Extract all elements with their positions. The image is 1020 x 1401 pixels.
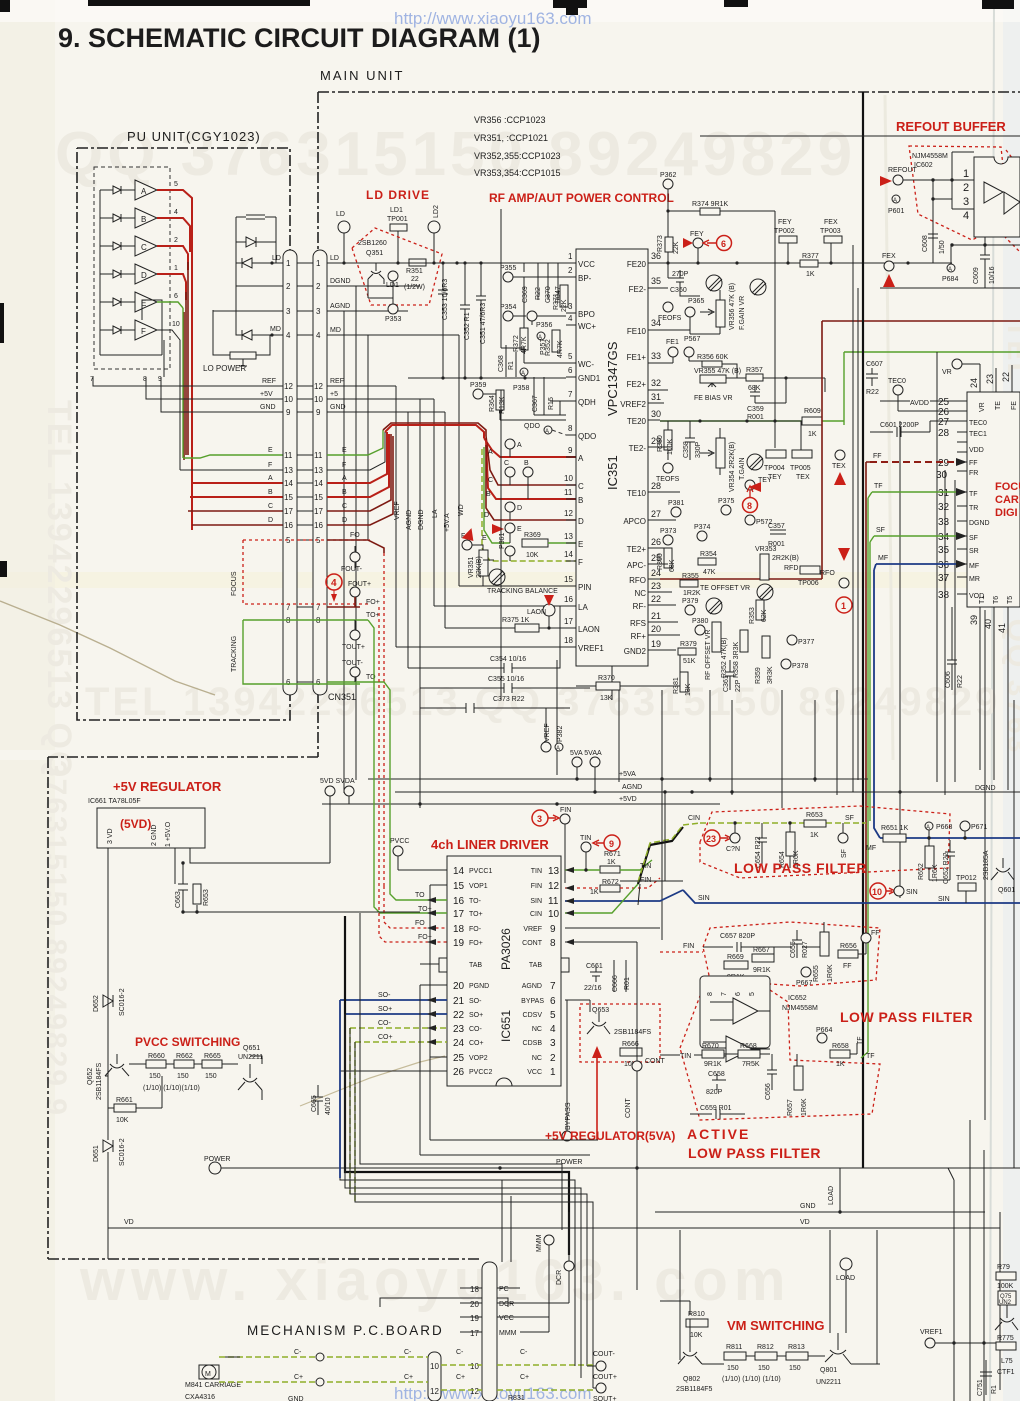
- svg-text:+5: +5: [330, 391, 338, 398]
- svg-text:FE1: FE1: [666, 339, 679, 346]
- C663 R653 pair: [178, 863, 420, 912]
- P664 node: [817, 1033, 827, 1043]
- svg-text:TP005: TP005: [790, 465, 811, 472]
- svg-text:7R5K: 7R5K: [742, 1061, 760, 1068]
- svg-text:D652: D652: [93, 995, 100, 1012]
- svg-text:4R7K: 4R7K: [557, 340, 564, 358]
- M841 carriage motor: [202, 1365, 216, 1379]
- svg-text:TO+: TO+: [366, 612, 380, 619]
- svg-text:R22: R22: [866, 389, 879, 396]
- C368 R1 labels: [408, 345, 566, 378]
- svg-text:LD: LD: [330, 255, 339, 262]
- svg-text:+5V: +5V: [260, 391, 273, 398]
- VD line: [108, 1227, 1000, 1229]
- R380 100K C358 330P vertical pair: [664, 430, 672, 450]
- VREF1 row 18: [396, 646, 576, 648]
- svg-text:FEOFS: FEOFS: [658, 315, 682, 322]
- C352 vertical cap: [460, 263, 470, 378]
- svg-text:(1/10) (1/10)(1/10): (1/10) (1/10)(1/10): [143, 1085, 200, 1092]
- MD wire: [236, 286, 283, 335]
- svg-text:CONT: CONT: [522, 940, 543, 947]
- svg-text:VR354 2R2K(B): VR354 2R2K(B): [729, 442, 736, 492]
- green E vertical: [182, 308, 184, 458]
- svg-text:9R1K: 9R1K: [753, 967, 771, 974]
- svg-text:P664: P664: [816, 1027, 832, 1034]
- svg-text:P361: P361: [499, 533, 506, 549]
- svg-text:12: 12: [548, 881, 560, 892]
- svg-text:WC-: WC-: [578, 360, 594, 369]
- svg-text:2SB1260: 2SB1260: [358, 240, 387, 247]
- R351 resistor: [409, 259, 426, 266]
- long verticals to bus area: [557, 352, 1014, 1120]
- C608 cap vertical: [928, 226, 938, 263]
- svg-text:FOUT-: FOUT-: [341, 566, 363, 573]
- svg-text:2SB1184FS: 2SB1184FS: [96, 1062, 103, 1100]
- LD row right: [327, 262, 910, 264]
- svg-text:P355: P355: [500, 265, 516, 272]
- regulator wires: [108, 804, 330, 995]
- C369 R22 C370 R047 vertical caps: [524, 263, 558, 300]
- svg-text:FIN: FIN: [531, 883, 542, 890]
- svg-text:B: B: [342, 489, 347, 496]
- PIN row 15: [459, 585, 576, 587]
- misc wires right cluster: [660, 447, 680, 672]
- svg-text:FOCU: FOCU: [995, 481, 1020, 493]
- svg-text:R377: R377: [802, 253, 819, 260]
- svg-text:1R6K: 1R6K: [827, 964, 834, 982]
- svg-text:D: D: [141, 271, 147, 280]
- svg-text:PVCC1: PVCC1: [469, 868, 492, 875]
- P355 node: [503, 272, 513, 282]
- svg-text:3R3K: 3R3K: [767, 666, 774, 684]
- svg-text:26: 26: [651, 537, 661, 547]
- svg-text:12: 12: [564, 509, 573, 518]
- svg-text:C666: C666: [612, 975, 619, 992]
- FO- red dashed left: [384, 886, 447, 928]
- R352 4R7K vertical: [552, 330, 560, 352]
- svg-text:10K: 10K: [116, 1117, 129, 1124]
- MMM node: [544, 1235, 554, 1245]
- PU UNIT box: [77, 148, 290, 720]
- svg-text:+5V REGULATOR: +5V REGULATOR: [113, 779, 222, 794]
- svg-text:MR: MR: [969, 576, 980, 583]
- svg-text:330P: 330P: [695, 441, 702, 458]
- C606 R22 vertical: [947, 607, 957, 690]
- svg-text:MAIN UNIT: MAIN UNIT: [320, 68, 404, 83]
- svg-text:C601 2200P: C601 2200P: [880, 422, 919, 429]
- svg-text:R353: R353: [749, 607, 756, 624]
- FE1 P567 nodes: [668, 347, 678, 357]
- svg-text:DGND: DGND: [975, 785, 996, 792]
- wire row y378: [660, 357, 825, 392]
- FIN node + circled 3: [560, 814, 570, 824]
- svg-text:VREF: VREF: [544, 723, 551, 742]
- svg-text:41: 41: [997, 623, 1007, 633]
- R374 row wire: [668, 211, 775, 448]
- C655 R027 vertical: [792, 930, 802, 958]
- svg-text:APCO: APCO: [623, 517, 646, 526]
- TO+ row pin8: [327, 619, 368, 621]
- svg-text:VR351, :CCP1021: VR351, :CCP1021: [474, 133, 548, 143]
- svg-text:C: C: [268, 503, 273, 510]
- svg-text:TEX: TEX: [796, 474, 810, 481]
- svg-text:R001: R001: [747, 414, 764, 421]
- svg-text:R658: R658: [832, 1043, 849, 1050]
- svg-text:10K: 10K: [526, 552, 539, 559]
- svg-text:DCR: DCR: [556, 1270, 563, 1285]
- C354 cap row: [408, 606, 560, 668]
- svg-text:VR356 :CCP1023: VR356 :CCP1023: [474, 115, 546, 125]
- svg-text:150: 150: [177, 1073, 189, 1080]
- circled 10 + SIN node: [870, 883, 886, 899]
- svg-text:6: 6: [568, 366, 573, 375]
- svg-text:RF OFFSET VR: RF OFFSET VR: [705, 630, 712, 680]
- MAIN UNIT border left upper: [317, 92, 319, 757]
- P380 node: [695, 625, 705, 635]
- svg-text:9: 9: [316, 408, 321, 417]
- svg-text:18: 18: [453, 924, 465, 935]
- FF dashed wire: [870, 461, 957, 463]
- bus junction dots: [575, 777, 578, 780]
- svg-text:T1: T1: [979, 596, 986, 604]
- photodiode F: [113, 326, 121, 334]
- svg-text:CXA4316: CXA4316: [185, 1394, 215, 1401]
- svg-text:TE: TE: [995, 401, 1002, 410]
- svg-text:22: 22: [411, 276, 419, 283]
- IC652 op-amp box: [700, 976, 770, 1048]
- svg-text:TIN: TIN: [680, 1053, 691, 1060]
- svg-text:R660: R660: [148, 1053, 165, 1060]
- svg-text:150: 150: [789, 1365, 801, 1372]
- svg-text:SF: SF: [841, 849, 848, 858]
- svg-text:FIN: FIN: [560, 807, 571, 814]
- svg-text:TOUT+: TOUT+: [342, 644, 365, 651]
- svg-text:F: F: [342, 462, 346, 469]
- svg-text:FO+: FO+: [469, 940, 483, 947]
- servo IC body: [967, 392, 1020, 607]
- R360 68K vertical: [664, 548, 672, 568]
- svg-text:R027: R027: [802, 941, 809, 958]
- svg-text:C355 10/16: C355 10/16: [488, 676, 524, 683]
- node circle E + red arrow: [505, 523, 515, 533]
- svg-text:RFS: RFS: [630, 619, 646, 628]
- P375 P374 P381 P373 nodes: [721, 505, 731, 515]
- svg-text:R670: R670: [702, 1043, 719, 1050]
- FOUT+ node: [350, 587, 360, 597]
- svg-text:R359: R359: [755, 667, 762, 684]
- svg-text:DGND: DGND: [418, 509, 425, 530]
- svg-text:3: 3: [286, 307, 291, 316]
- svg-text:TE2+: TE2+: [627, 545, 647, 554]
- svg-text:ACTIVE: ACTIVE: [687, 1126, 750, 1142]
- svg-text:1K: 1K: [607, 859, 616, 866]
- svg-text:5: 5: [749, 992, 756, 996]
- svg-text:BP-: BP-: [578, 274, 592, 283]
- svg-text:FE: FE: [1011, 401, 1018, 410]
- svg-text:SIN: SIN: [906, 889, 918, 896]
- svg-text:C: C: [342, 503, 347, 510]
- svg-text:RFD: RFD: [784, 565, 798, 572]
- screw below VR353: [757, 584, 773, 600]
- svg-text:TEX: TEX: [832, 463, 846, 470]
- svg-text:C351 47/6R3: C351 47/6R3: [480, 303, 487, 344]
- P359 node: [473, 389, 483, 399]
- svg-text:1K: 1K: [590, 889, 599, 896]
- horizontal line under refout label: [700, 135, 1020, 137]
- svg-text:P377: P377: [798, 639, 814, 646]
- svg-text:REFOUT BUFFER: REFOUT BUFFER: [896, 119, 1006, 134]
- svg-text:C657 820P: C657 820P: [720, 933, 755, 940]
- svg-text:R355: R355: [682, 573, 699, 580]
- svg-text:23: 23: [651, 581, 661, 591]
- transistor right: [995, 1305, 1018, 1330]
- svg-text:R669: R669: [727, 954, 744, 961]
- svg-text:D: D: [268, 517, 273, 524]
- svg-text:R373: R373: [657, 235, 664, 252]
- svg-text:VR352,355:CCP1023: VR352,355:CCP1023: [474, 151, 561, 161]
- wires PVCC row: [129, 1056, 262, 1064]
- svg-text:(1/10) (1/10) (1/10): (1/10) (1/10) (1/10): [722, 1376, 781, 1383]
- svg-text:SC016-2: SC016-2: [119, 988, 126, 1016]
- screw TEY: [747, 454, 763, 470]
- svg-text:CIN: CIN: [530, 911, 542, 918]
- C353 vertical cap: [438, 263, 448, 378]
- svg-text:10: 10: [872, 887, 882, 897]
- bundle fanout to connector rows: E: [183, 455, 283, 458]
- svg-text:9: 9: [286, 408, 291, 417]
- screw symbol right: [750, 279, 766, 295]
- P362 vertical: [667, 189, 669, 263]
- svg-text:GND1: GND1: [578, 374, 601, 383]
- C665 40/10: [313, 1085, 323, 1115]
- svg-text:DIGI: DIGI: [995, 507, 1018, 519]
- P377 node: [787, 635, 797, 645]
- svg-text:LD1: LD1: [386, 282, 399, 289]
- TE20 row black underlay: [660, 420, 802, 422]
- svg-text:4: 4: [963, 210, 969, 222]
- circled 23 + CIN node: [704, 830, 720, 846]
- svg-text:SIN: SIN: [938, 896, 950, 903]
- svg-text:2: 2: [286, 282, 291, 291]
- A-circle P358: [520, 368, 528, 376]
- svg-text:LOW PASS FILTER: LOW PASS FILTER: [840, 1009, 973, 1025]
- svg-text:M: M: [205, 1371, 211, 1378]
- svg-text:E: E: [268, 447, 273, 454]
- svg-text:24: 24: [969, 378, 979, 388]
- IC351 right pin numbers: [651, 251, 661, 649]
- svg-text:P359: P359: [470, 382, 486, 389]
- svg-text:C: C: [488, 477, 493, 484]
- svg-text:4: 4: [174, 209, 178, 216]
- svg-text:150: 150: [205, 1073, 217, 1080]
- svg-text:IC351: IC351: [605, 455, 620, 490]
- svg-text:19: 19: [470, 1314, 479, 1323]
- TEX node + triangle: [835, 450, 845, 460]
- svg-text:C358: C358: [683, 441, 690, 458]
- svg-text:GND: GND: [330, 404, 346, 411]
- svg-text:TF: TF: [857, 1036, 864, 1045]
- svg-text:LD: LD: [336, 211, 345, 218]
- heavy vertical bus line: [862, 92, 864, 1168]
- svg-text:1R2K: 1R2K: [683, 590, 701, 597]
- R371 22K vertical resistor: [560, 285, 568, 307]
- svg-text:IC602: IC602: [914, 162, 933, 169]
- svg-text:LD1: LD1: [390, 207, 403, 214]
- C666 R01 vertical: [614, 960, 626, 992]
- svg-text:C+: C+: [294, 1374, 303, 1381]
- P365 node: [685, 307, 695, 317]
- SIN blue long: [683, 890, 1020, 903]
- C row right to bundle: [327, 434, 391, 511]
- svg-text:B: B: [268, 489, 273, 496]
- svg-text:5: 5: [550, 1010, 556, 1021]
- svg-text:NJM4558M: NJM4558M: [782, 1005, 818, 1012]
- SIN blue right: [565, 890, 683, 901]
- CIN green dashed route up: [638, 823, 700, 882]
- svg-text:3: 3: [568, 302, 573, 311]
- C- row green dashed: [219, 1356, 428, 1358]
- servo left pin numbers: [936, 397, 950, 601]
- node circle A: [505, 439, 515, 449]
- fanout F: [180, 469, 283, 471]
- svg-text:COUT-: COUT-: [593, 1351, 615, 1358]
- P668 node: [925, 822, 933, 830]
- svg-text:VR: VR: [942, 369, 952, 376]
- svg-text:5VA 5VAA: 5VA 5VAA: [570, 750, 602, 757]
- svg-text:R356 60K: R356 60K: [697, 354, 728, 361]
- svg-text:VD: VD: [800, 1219, 810, 1226]
- svg-text:P380: P380: [692, 618, 708, 625]
- svg-text:TF: TF: [874, 483, 883, 490]
- svg-text:27: 27: [651, 509, 661, 519]
- IC651 body: [447, 856, 561, 1086]
- svg-text:5: 5: [568, 352, 573, 361]
- svg-text:C361: C361: [723, 675, 730, 692]
- svg-text:13: 13: [564, 532, 573, 541]
- svg-text:WD: WD: [458, 504, 465, 516]
- svg-text:15: 15: [314, 493, 323, 502]
- TEY node + triangle + circled 8: [745, 480, 755, 490]
- svg-text:14: 14: [314, 479, 323, 488]
- svg-text:LA: LA: [432, 509, 439, 518]
- svg-text:R671: R671: [604, 851, 621, 858]
- svg-text:35: 35: [938, 545, 950, 556]
- TRACKING green box path: [243, 620, 360, 684]
- svg-text:33: 33: [938, 517, 950, 528]
- svg-text:33: 33: [651, 351, 661, 361]
- svg-text:TO+: TO+: [469, 911, 483, 918]
- photodiode B: [113, 214, 121, 222]
- svg-text:20: 20: [453, 981, 465, 992]
- R651 1K: [880, 837, 1020, 839]
- svg-text:10/16: 10/16: [989, 266, 996, 284]
- svg-text:A: A: [948, 267, 952, 273]
- FO row pin5: [327, 540, 384, 553]
- heavy black elbow CIN route: [638, 827, 683, 884]
- amp E: [135, 292, 157, 312]
- vertical WD: [368, 335, 459, 586]
- pin numbers left pill: [284, 259, 293, 687]
- LD diode left: [242, 258, 252, 268]
- TO row pin6: [327, 681, 360, 683]
- svg-text:40/10: 40/10: [325, 1097, 332, 1115]
- svg-text:1: 1: [174, 265, 178, 272]
- wires refout: [903, 152, 1020, 263]
- svg-text:VPC1347GS: VPC1347GS: [605, 341, 620, 416]
- svg-text:R652: R652: [918, 863, 925, 880]
- circled 4 red: [326, 574, 342, 590]
- svg-text:C652 R22: C652 R22: [943, 852, 950, 884]
- svg-text:10: 10: [172, 321, 180, 328]
- vertical VREF: [395, 386, 397, 647]
- svg-text:2: 2: [174, 237, 178, 244]
- IC602 chip body: [974, 157, 1020, 237]
- pill top feed verticals: [502, 1180, 511, 1262]
- svg-text:3: 3: [963, 196, 969, 208]
- svg-text:R22: R22: [535, 287, 542, 300]
- long vertical from RF label area: [500, 209, 502, 263]
- svg-text:15: 15: [284, 493, 293, 502]
- svg-text:P374: P374: [694, 524, 710, 531]
- svg-text:C: C: [504, 460, 509, 467]
- svg-text:12: 12: [284, 382, 293, 391]
- svg-text:16: 16: [564, 595, 573, 604]
- svg-text:C373 R22: C373 R22: [493, 696, 525, 703]
- POWER line: [221, 1168, 1020, 1401]
- svg-text:22K: 22K: [673, 241, 680, 254]
- svg-text:TAB: TAB: [529, 962, 542, 969]
- svg-text:17: 17: [453, 909, 465, 920]
- DGND row right: [327, 285, 420, 287]
- arrows into pins 16-19: [427, 897, 436, 945]
- svg-text:FOCUS: FOCUS: [231, 571, 238, 596]
- op-amp wires: [703, 1002, 770, 1056]
- fanout C: [188, 510, 283, 512]
- svg-text:R379: R379: [680, 641, 697, 648]
- svg-text:FR: FR: [969, 470, 978, 477]
- svg-text:FF: FF: [871, 930, 880, 937]
- svg-text:22/16: 22/16: [584, 985, 602, 992]
- svg-text:6: 6: [735, 992, 742, 996]
- svg-text:F: F: [578, 558, 583, 567]
- IC651 right pin labels: [521, 868, 544, 1076]
- amp F feedback box: [142, 300, 162, 355]
- svg-text:VR353: VR353: [755, 546, 777, 553]
- wires pins 20,25,26 left: [340, 985, 447, 1071]
- svg-text:IC661 TA78L05F: IC661 TA78L05F: [88, 798, 141, 805]
- VM wires: [660, 1301, 880, 1364]
- RFO red path up: [660, 321, 1020, 579]
- svg-text:SC016-2: SC016-2: [119, 1138, 126, 1166]
- svg-text:PIN: PIN: [578, 583, 592, 592]
- svg-text:19: 19: [651, 639, 661, 649]
- MF blue wire: [874, 564, 957, 838]
- screw RF offset: [706, 598, 722, 614]
- svg-text:31: 31: [651, 392, 661, 402]
- svg-text:R352: R352: [545, 339, 552, 356]
- F vertical: [179, 360, 181, 470]
- GND wire from PU: [161, 377, 283, 412]
- svg-text:26: 26: [453, 1067, 465, 1078]
- D row right to bundle: [327, 436, 393, 525]
- C361 22P vertical: [725, 660, 735, 690]
- svg-text:27: 27: [938, 417, 950, 428]
- GND row right: [327, 411, 445, 413]
- FO+ red dashed left: [379, 607, 447, 942]
- svg-text:+5VD: +5VD: [619, 796, 637, 803]
- arrows into pins 21-24: [427, 997, 436, 1045]
- junction dots reg: [181, 861, 184, 864]
